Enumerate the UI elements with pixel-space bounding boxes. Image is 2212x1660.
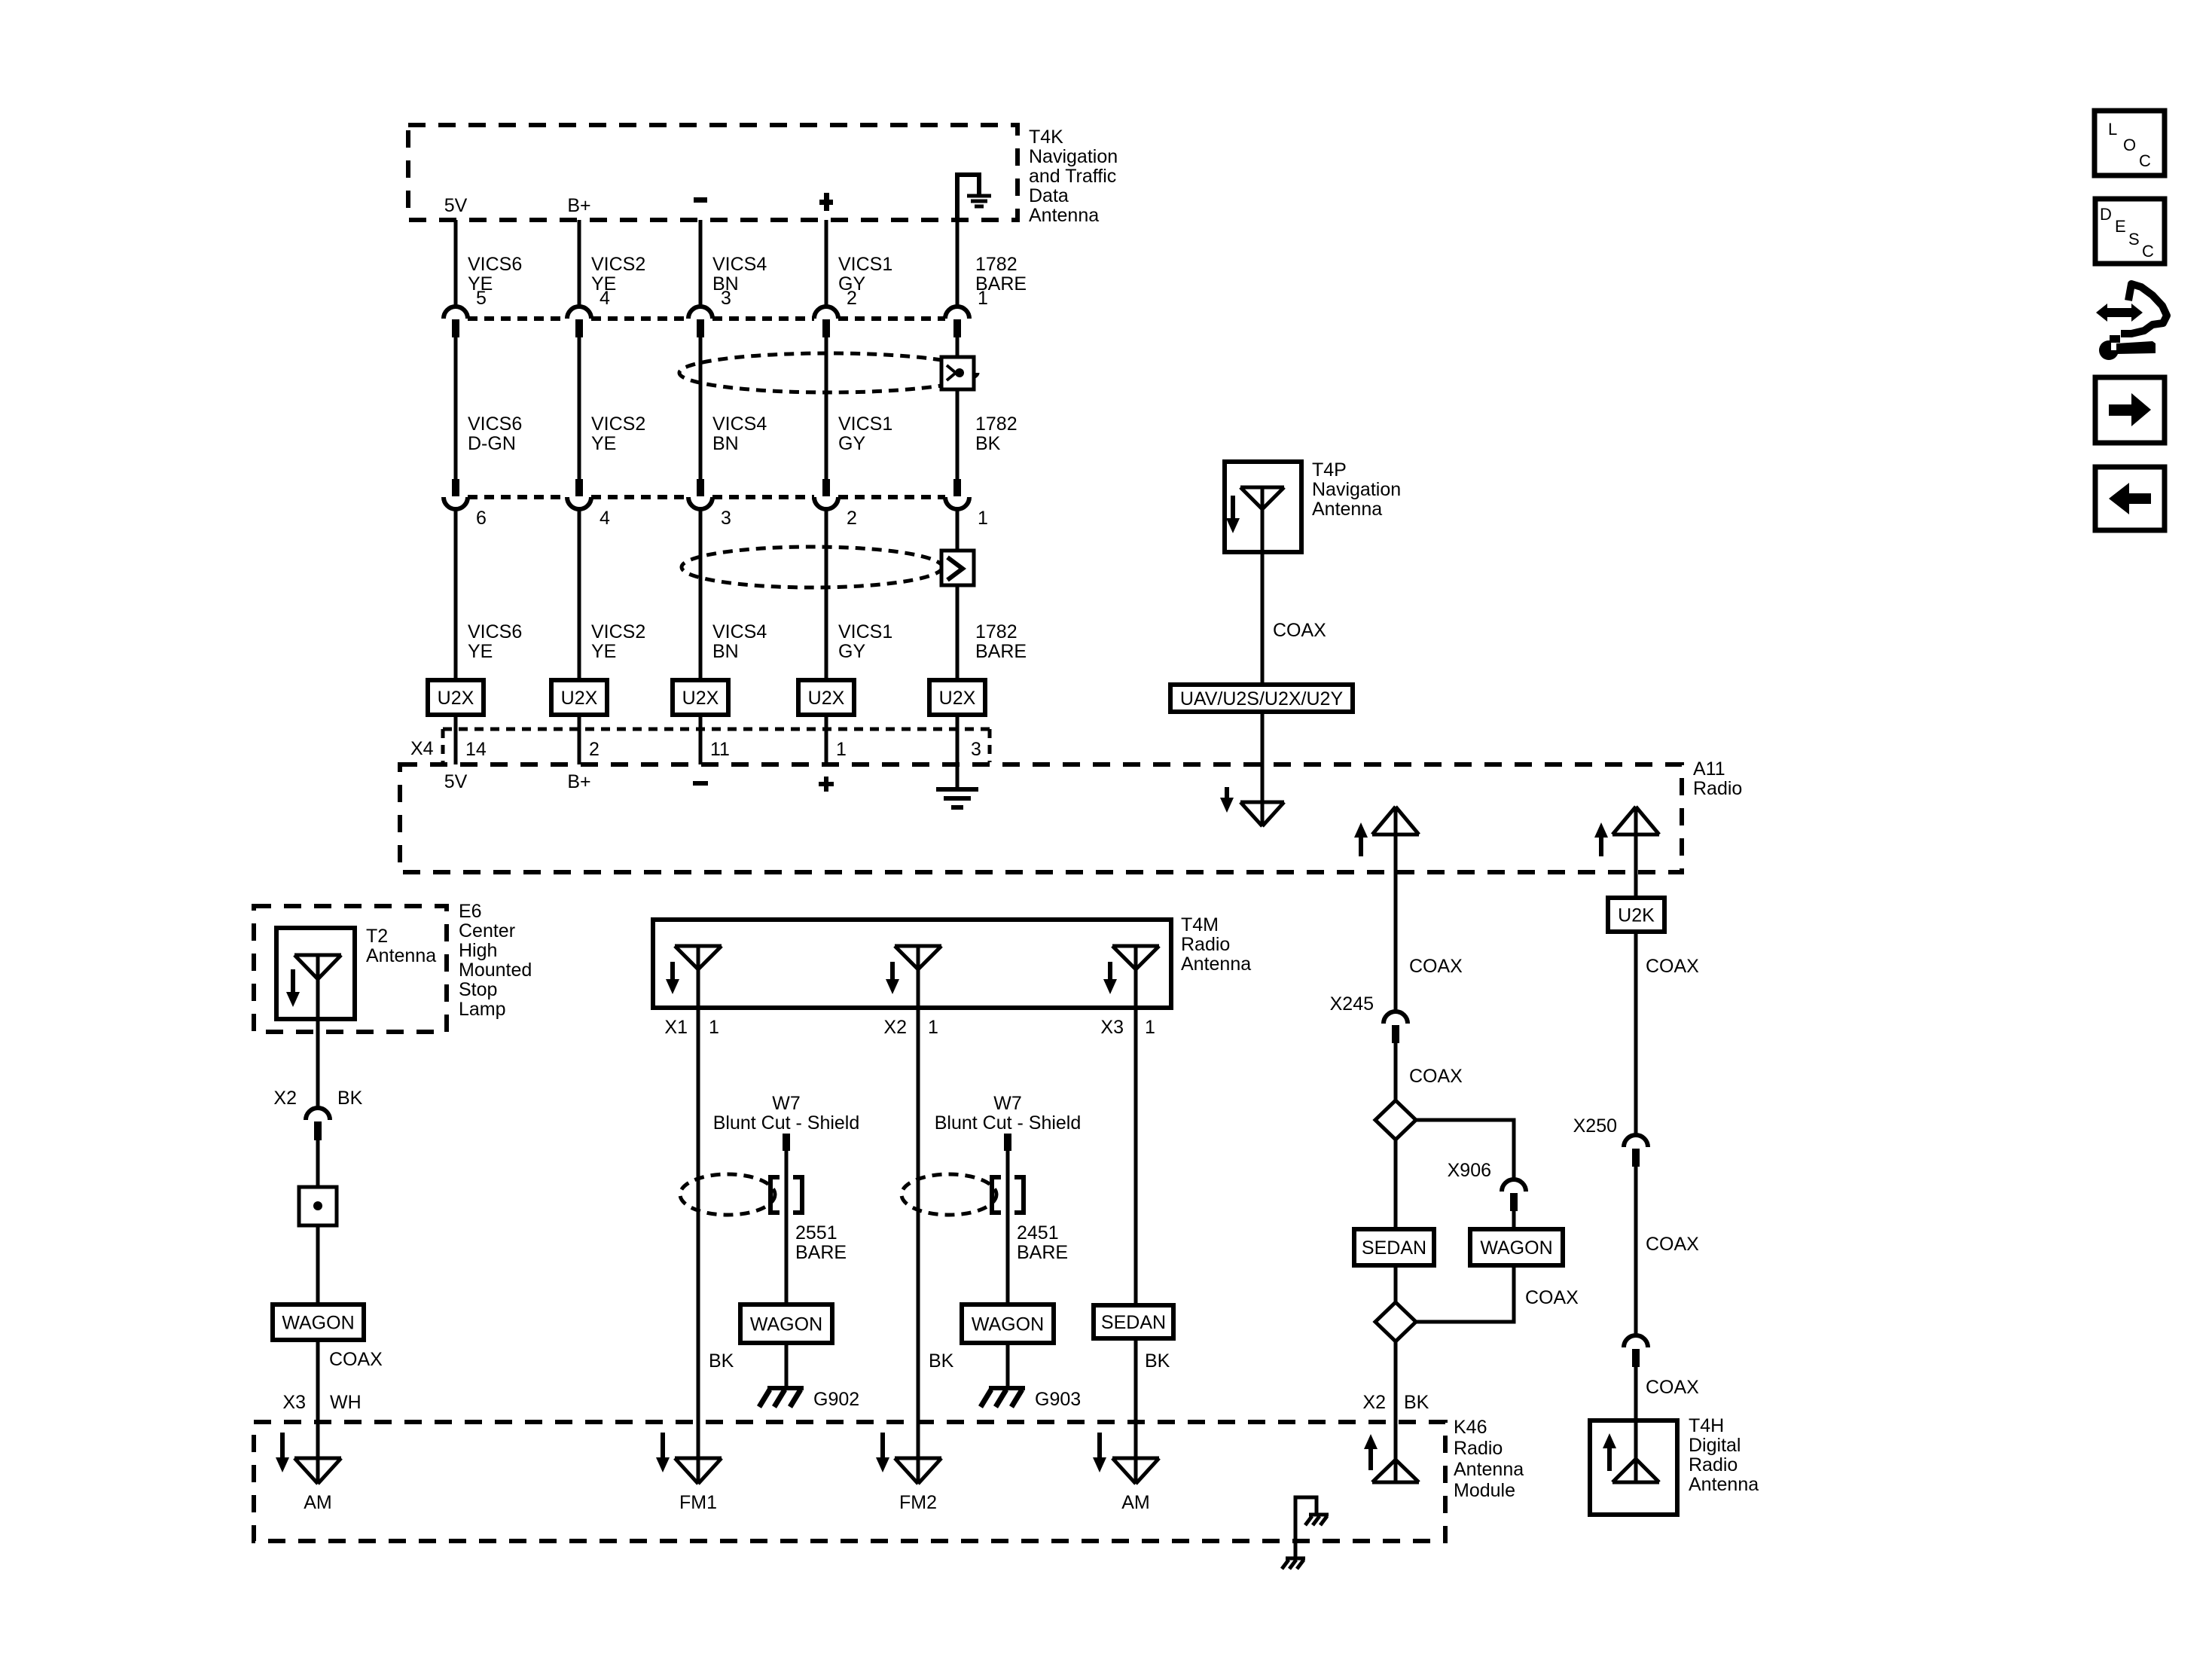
svg-text:BARE: BARE	[975, 641, 1027, 662]
connector half (row 1) at x=769	[567, 307, 591, 319]
wire VICS2 YE wire (B+) lower segment	[578, 509, 581, 680]
option box U2X at x=769	[551, 680, 607, 715]
svg-text:4: 4	[600, 508, 610, 529]
svg-text:1782: 1782	[975, 254, 1018, 275]
pin label plus (T4K)	[819, 200, 833, 205]
antenna symbol (T4P)	[1240, 487, 1284, 509]
svg-text:BARE: BARE	[1017, 1242, 1068, 1263]
svg-text:A11: A11	[1693, 758, 1725, 780]
svg-text:COAX: COAX	[1273, 620, 1326, 641]
svg-text:VICS1: VICS1	[838, 413, 892, 435]
svg-text:X250: X250	[1573, 1115, 1617, 1137]
shield ellipse (2451)	[902, 1174, 996, 1215]
ground G903	[989, 1386, 1025, 1390]
svg-text:Radio: Radio	[1454, 1438, 1503, 1459]
ground G902	[767, 1386, 804, 1390]
wire 1782 BARE wire (shield) mid segment	[956, 337, 960, 479]
svg-text:U2X: U2X	[438, 688, 474, 709]
option box WAGON (2451)	[962, 1305, 1054, 1343]
chassis ground (K46 external)	[1286, 1557, 1305, 1561]
svg-text:Digital: Digital	[1689, 1435, 1741, 1456]
svg-text:Antenna: Antenna	[1454, 1459, 1524, 1480]
svg-text:VICS6: VICS6	[468, 413, 522, 435]
wire antenna stem X3	[1134, 946, 1138, 1305]
svg-text:C: C	[2142, 242, 2154, 261]
wire X906 to WAGON option	[1512, 1211, 1516, 1229]
svg-text:5: 5	[476, 288, 487, 309]
svg-text:Blunt Cut - Shield: Blunt Cut - Shield	[713, 1112, 860, 1134]
svg-text:3: 3	[721, 288, 731, 309]
svg-text:1: 1	[836, 739, 847, 760]
option box SEDAN (T4M X3)	[1094, 1305, 1173, 1338]
wire antenna stem X2	[917, 946, 920, 1484]
svg-text:Stop: Stop	[459, 979, 497, 1000]
svg-text:BK: BK	[337, 1088, 363, 1109]
signal-flow triangle out of radio (to antenna module)	[1372, 807, 1419, 835]
svg-text:2: 2	[847, 288, 857, 309]
signal arrow up (A11 left output)	[1359, 836, 1363, 856]
svg-text:WAGON: WAGON	[750, 1314, 822, 1335]
svg-text:O: O	[2123, 136, 2136, 154]
svg-text:AM: AM	[304, 1492, 332, 1513]
wire diamond to SEDAN option	[1394, 1140, 1398, 1229]
signal-flow triangle out of radio (to digital antenna)	[1612, 807, 1659, 835]
wire below U2X at x=930	[699, 715, 703, 764]
wire 1782 BARE wire (shield) lower segment	[956, 509, 960, 680]
wire VICS1 GY wire (plus) lower segment	[825, 509, 828, 680]
shield brackets (2551)	[770, 1177, 780, 1213]
wire antenna stem X1	[697, 946, 700, 1484]
wire splice to WAGON option	[316, 1225, 320, 1305]
svg-text:X2: X2	[1362, 1392, 1386, 1413]
connector half (row 1) at x=605	[444, 307, 468, 319]
wire radio antenna output (A11 to X245)	[1394, 807, 1398, 1012]
svg-text:Navigation: Navigation	[1029, 146, 1118, 167]
svg-text:3: 3	[721, 508, 731, 529]
svg-text:U2X: U2X	[682, 688, 719, 709]
wire T2 to connector X2	[316, 955, 320, 1108]
antenna symbol (T4M element 1)	[675, 946, 722, 969]
svg-text:COAX: COAX	[1409, 956, 1463, 977]
svg-text:GY: GY	[838, 641, 865, 662]
svg-text:VICS1: VICS1	[838, 254, 892, 275]
svg-text:D: D	[2100, 205, 2112, 224]
svg-text:B+: B+	[567, 195, 590, 216]
connector X2 inline (T2 chain)	[306, 1108, 330, 1120]
option box SEDAN (antenna module)	[1354, 1229, 1434, 1265]
svg-text:T2: T2	[366, 926, 388, 947]
option box U2X at x=1097	[798, 680, 854, 715]
option box U2K	[1608, 898, 1664, 932]
icon box DESC	[2095, 199, 2165, 264]
svg-text:Antenna: Antenna	[366, 945, 436, 966]
icon box arrow left	[2095, 467, 2165, 530]
connector half (row 1) at x=930	[688, 307, 712, 319]
connector row 2 dashed link	[468, 495, 567, 499]
inline coax connector (right column)	[1624, 1335, 1648, 1347]
icon box LOC	[2095, 111, 2165, 175]
connector half (row 1) at x=1271	[945, 307, 969, 319]
svg-text:U2X: U2X	[561, 688, 598, 709]
svg-text:Radio: Radio	[1181, 934, 1230, 955]
svg-text:1: 1	[1145, 1017, 1155, 1038]
component A11 Radio dashed box	[400, 764, 1682, 872]
signal-flow triangle (K46 FM1)	[675, 1458, 722, 1484]
svg-text:Radio: Radio	[1689, 1454, 1738, 1475]
wire VICS6 YE wire (5V) mid segment	[454, 337, 458, 479]
shield brackets (2451)	[992, 1177, 1001, 1213]
svg-text:VICS4: VICS4	[712, 413, 767, 435]
connector X4 dotted outline	[443, 728, 990, 731]
svg-text:1782: 1782	[975, 621, 1018, 642]
wire COAX T4P to UAV box	[1261, 487, 1265, 685]
signal arrow down (T4P)	[1231, 496, 1235, 520]
connector half (row 2) at x=930	[697, 479, 704, 496]
svg-text:2: 2	[847, 508, 857, 529]
antenna symbol (T4M element 3)	[1112, 946, 1159, 969]
svg-text:COAX: COAX	[329, 1349, 383, 1370]
svg-text:VICS4: VICS4	[712, 621, 767, 642]
wire VICS4 BN wire (minus) lower segment	[699, 509, 703, 680]
svg-text:WAGON: WAGON	[972, 1314, 1044, 1335]
svg-text:BK: BK	[1404, 1392, 1429, 1413]
component T4K Navigation and Traffic Data Antenna dashed box	[408, 125, 1018, 220]
svg-text:WH: WH	[330, 1392, 362, 1413]
signal arrow up (T4H)	[1607, 1447, 1612, 1471]
svg-text:Antenna: Antenna	[1181, 954, 1251, 975]
signal-flow triangle into radio (T4P input)	[1240, 802, 1284, 826]
ground (A11 pin 3)	[956, 764, 960, 788]
svg-text:BN: BN	[712, 641, 739, 662]
wire below U2X at x=1271	[956, 715, 960, 764]
svg-text:Center: Center	[459, 920, 515, 941]
antenna symbol (T2)	[294, 955, 341, 979]
wire SEDAN to K46 (AM)	[1134, 1338, 1138, 1484]
svg-text:E: E	[2115, 217, 2126, 236]
wire 1782 BARE wire (shield) segment from T4K	[956, 220, 960, 307]
svg-text:1: 1	[709, 1017, 719, 1038]
icon box arrow right	[2095, 377, 2165, 443]
wire digital radio output (A11 to U2K)	[1634, 807, 1638, 898]
wire UAV box to A11	[1261, 712, 1265, 826]
svg-text:W7: W7	[772, 1093, 801, 1114]
option box UAV/U2S/U2X/U2Y	[1170, 685, 1353, 712]
svg-text:U2X: U2X	[939, 688, 976, 709]
svg-text:X4: X4	[410, 738, 434, 759]
svg-text:2: 2	[589, 739, 600, 760]
connector half (row 2) at x=605	[452, 479, 459, 496]
signal-flow triangle (K46 AM from T2)	[294, 1458, 341, 1484]
wire to T4H	[1634, 1367, 1638, 1482]
connector half (row 2) at x=1097	[822, 479, 830, 496]
ground (inside T4K)	[957, 175, 979, 218]
svg-text:2551: 2551	[795, 1222, 838, 1243]
svg-text:and Traffic: and Traffic	[1029, 166, 1116, 187]
component T2 Antenna box	[276, 928, 355, 1019]
svg-text:Antenna: Antenna	[1312, 499, 1382, 520]
svg-text:K46: K46	[1454, 1417, 1487, 1438]
splice diamond upper	[1375, 1100, 1416, 1140]
svg-text:W7: W7	[993, 1093, 1022, 1114]
svg-text:SEDAN: SEDAN	[1362, 1237, 1426, 1259]
svg-text:UAV/U2S/U2X/U2Y: UAV/U2S/U2X/U2Y	[1180, 688, 1344, 709]
wire VICS4 BN wire (minus) segment from T4K	[699, 220, 703, 307]
pin label minus (T4K)	[694, 197, 707, 203]
svg-text:BK: BK	[975, 433, 1001, 454]
blunt cut stub (2551)	[783, 1134, 790, 1151]
signal arrow down (T4M element 3)	[1108, 962, 1112, 981]
svg-text:COAX: COAX	[1646, 956, 1699, 977]
option box U2X at x=1271	[929, 680, 985, 715]
svg-text:VICS2: VICS2	[591, 254, 645, 275]
svg-text:4: 4	[600, 288, 610, 309]
signal arrow up (K46 X2 output)	[1368, 1448, 1373, 1470]
option box WAGON (antenna module)	[1470, 1229, 1563, 1265]
signal-flow triangle (K46 FM2)	[895, 1458, 941, 1484]
option box U2X at x=605	[428, 680, 484, 715]
svg-text:High: High	[459, 940, 497, 961]
wire below U2X at x=1097	[825, 715, 828, 764]
svg-text:BK: BK	[929, 1350, 954, 1372]
svg-text:S: S	[2128, 230, 2140, 249]
wire VICS2 YE wire (B+) mid segment	[578, 337, 581, 479]
svg-text:U2K: U2K	[1618, 905, 1655, 926]
svg-text:YE: YE	[468, 641, 493, 662]
connector row 1 dashed link	[468, 316, 567, 321]
wire SEDAN to diamond lower	[1394, 1265, 1398, 1302]
svg-text:VICS2: VICS2	[591, 621, 645, 642]
svg-text:1: 1	[978, 508, 988, 529]
svg-text:COAX: COAX	[1409, 1066, 1463, 1087]
wire diamond lower to K46	[1394, 1341, 1398, 1482]
signal arrow down (T4M element 1)	[670, 962, 675, 981]
svg-text:14: 14	[465, 739, 487, 760]
component T4M Radio Antenna box	[653, 920, 1171, 1008]
svg-text:E6: E6	[459, 901, 482, 922]
signal arrow down (K46 FM2 input)	[880, 1433, 885, 1459]
svg-text:T4K: T4K	[1029, 127, 1063, 148]
svg-text:Lamp: Lamp	[459, 999, 506, 1020]
signal arrow down (K46 AM2 input)	[1097, 1433, 1102, 1459]
blunt cut stub (2451)	[1004, 1134, 1011, 1151]
svg-text:B+: B+	[567, 771, 590, 792]
wire VICS2 YE wire (B+) segment from T4K	[578, 220, 581, 307]
svg-text:X2: X2	[273, 1088, 297, 1109]
antenna symbol (T4H)	[1612, 1459, 1659, 1482]
svg-text:Module: Module	[1454, 1480, 1515, 1501]
signal arrow down (K46 AM input)	[280, 1433, 285, 1459]
connector half (row 2) at x=1271	[953, 479, 961, 496]
icon connector-repair (arrow and wrench)	[2096, 304, 2143, 322]
svg-text:Antenna: Antenna	[1029, 205, 1099, 226]
svg-text:Data: Data	[1029, 185, 1069, 206]
signal arrow down (T2)	[291, 969, 295, 993]
svg-text:VICS2: VICS2	[591, 413, 645, 435]
wire X2 to splice box	[316, 1140, 320, 1187]
svg-text:11: 11	[710, 739, 730, 760]
signal arrow down (T4M element 2)	[890, 962, 895, 981]
svg-text:BN: BN	[712, 433, 739, 454]
connector X906 inline	[1502, 1179, 1526, 1192]
case ground wire (K46)	[1295, 1497, 1317, 1558]
signal-flow triangle (K46 AM from T4M)	[1112, 1458, 1159, 1484]
svg-text:FM2: FM2	[899, 1492, 937, 1513]
wire VICS6 YE wire (5V) lower segment	[454, 509, 458, 680]
svg-text:VICS6: VICS6	[468, 621, 522, 642]
svg-text:C: C	[2139, 151, 2151, 170]
svg-text:AM: AM	[1121, 1492, 1150, 1513]
svg-text:G902: G902	[813, 1389, 859, 1410]
pin label minus (A11)	[693, 781, 708, 786]
svg-text:5V: 5V	[444, 771, 468, 792]
wire below U2X at x=769	[578, 715, 581, 764]
wire VICS1 GY wire (plus) segment from T4K	[825, 220, 828, 307]
option box WAGON (T2 chain)	[273, 1305, 364, 1340]
wire below U2X at x=605	[454, 715, 458, 764]
pin label plus (A11)	[819, 782, 834, 786]
shield junction box with dot (wire 1782)	[941, 357, 974, 389]
splice box with dot (T2 chain)	[299, 1187, 337, 1225]
svg-text:BK: BK	[709, 1350, 734, 1372]
svg-text:Navigation: Navigation	[1312, 479, 1401, 500]
svg-text:X2: X2	[883, 1017, 907, 1038]
svg-text:1: 1	[928, 1017, 938, 1038]
svg-text:X906: X906	[1448, 1160, 1491, 1181]
connector half (row 2) at x=769	[575, 479, 583, 496]
svg-text:D-GN: D-GN	[468, 433, 516, 454]
svg-text:Mounted: Mounted	[459, 960, 532, 981]
wire WAGON to K46	[316, 1340, 320, 1484]
wire branch to X906	[1416, 1120, 1514, 1179]
component T4H Digital Radio Antenna box	[1590, 1420, 1677, 1515]
antenna symbol (T4M element 2)	[895, 946, 941, 969]
shield ellipse (2551)	[680, 1174, 775, 1215]
svg-text:GY: GY	[838, 433, 865, 454]
connector X245 inline	[1384, 1012, 1408, 1024]
svg-text:1782: 1782	[975, 413, 1018, 435]
signal arrow down (K46 FM1 input)	[661, 1433, 665, 1459]
svg-text:Radio: Radio	[1693, 778, 1742, 799]
svg-text:X3: X3	[282, 1392, 306, 1413]
signal arrow up (A11 right output)	[1599, 836, 1603, 856]
svg-text:L: L	[2108, 120, 2117, 139]
svg-text:U2X: U2X	[808, 688, 845, 709]
chassis ground (K46 internal)	[1309, 1513, 1329, 1517]
svg-text:BARE: BARE	[795, 1242, 847, 1263]
svg-text:6: 6	[476, 508, 487, 529]
component K46 Radio Antenna Module dashed box	[254, 1422, 1445, 1541]
wire VICS1 GY wire (plus) mid segment	[825, 337, 828, 479]
svg-text:COAX: COAX	[1646, 1377, 1699, 1398]
svg-text:FM1: FM1	[679, 1492, 717, 1513]
svg-text:Antenna: Antenna	[1689, 1474, 1759, 1495]
wire WAGON to ground (G902)	[785, 1343, 789, 1388]
connector half (row 1) at x=1097	[814, 307, 838, 319]
twisted-shield ellipse (upper)	[679, 353, 978, 392]
wire U2K to X250	[1634, 932, 1638, 1135]
splice diamond lower	[1375, 1302, 1416, 1341]
twisted-shield ellipse (lower)	[682, 547, 942, 587]
svg-text:WAGON: WAGON	[282, 1313, 354, 1334]
svg-text:VICS1: VICS1	[838, 621, 892, 642]
shield junction box with hook (wire 1782 lower)	[941, 551, 974, 585]
svg-text:T4P: T4P	[1312, 459, 1347, 481]
signal arrow down (A11 nav input)	[1225, 787, 1229, 799]
svg-text:BK: BK	[1145, 1350, 1170, 1372]
svg-text:YE: YE	[591, 433, 616, 454]
svg-text:3: 3	[971, 739, 981, 760]
connector X250 inline	[1624, 1135, 1648, 1147]
svg-text:G903: G903	[1035, 1389, 1081, 1410]
svg-text:WAGON: WAGON	[1480, 1237, 1552, 1259]
svg-text:5V: 5V	[444, 195, 468, 216]
component T4P Navigation Antenna box	[1225, 462, 1301, 552]
svg-text:T4M: T4M	[1181, 914, 1219, 935]
wire X250 to inline connector	[1634, 1167, 1638, 1335]
svg-text:VICS6: VICS6	[468, 254, 522, 275]
wire WAGON to ground (G903)	[1006, 1343, 1010, 1388]
component E6 Center High Mounted Stop Lamp dashed box	[254, 906, 447, 1032]
option box WAGON (2551)	[740, 1305, 832, 1343]
svg-text:YE: YE	[591, 641, 616, 662]
svg-text:Blunt Cut - Shield: Blunt Cut - Shield	[935, 1112, 1082, 1134]
svg-text:X245: X245	[1330, 993, 1374, 1015]
wire VICS6 YE wire (5V) segment from T4K	[454, 220, 458, 307]
svg-text:2451: 2451	[1017, 1222, 1059, 1243]
svg-text:VICS4: VICS4	[712, 254, 767, 275]
wire X245 to diamond splice	[1394, 1043, 1398, 1100]
svg-text:COAX: COAX	[1525, 1287, 1579, 1308]
wire WAGON to diamond lower	[1416, 1265, 1514, 1322]
svg-text:SEDAN: SEDAN	[1101, 1312, 1166, 1333]
svg-text:X3: X3	[1100, 1017, 1124, 1038]
svg-text:X1: X1	[664, 1017, 688, 1038]
signal-flow triangle (K46 X2 up)	[1372, 1460, 1419, 1482]
svg-text:1: 1	[978, 288, 988, 309]
svg-text:COAX: COAX	[1646, 1234, 1699, 1255]
svg-text:T4H: T4H	[1689, 1415, 1724, 1436]
wire VICS4 BN wire (minus) mid segment	[699, 337, 703, 479]
option box U2X at x=930	[673, 680, 728, 715]
